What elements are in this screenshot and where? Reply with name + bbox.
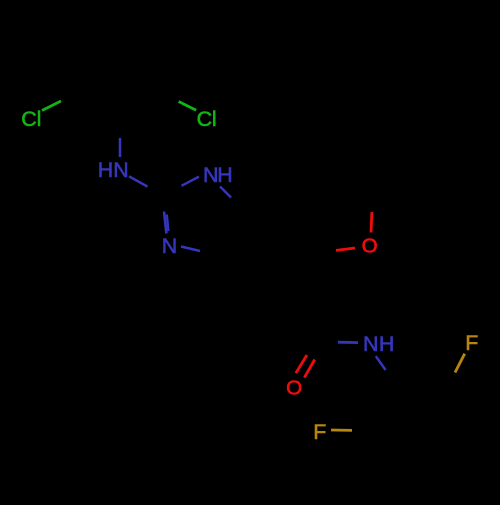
svg-text:C: C: [197, 107, 212, 131]
bond C2 - N1H imidazoline, blue half: [182, 177, 200, 186]
svg-text:N: N: [113, 158, 128, 182]
double bond C=O line 2, red half: [304, 360, 314, 378]
bond furan O - C7a vertical, red half: [370, 212, 374, 232]
svg-text:F: F: [313, 420, 326, 444]
svg-text:l: l: [212, 107, 217, 131]
svg-text:N: N: [203, 163, 218, 187]
svg-text:N: N: [363, 332, 378, 356]
svg-text:H: H: [217, 163, 232, 187]
bond N1H - C5 ring, blue half: [220, 187, 231, 198]
svg-text:O: O: [286, 376, 302, 399]
bond phenyl C1 - NH amine, blue half: [119, 138, 122, 157]
bond C2(ring)-Cl left, green half: [42, 101, 61, 111]
svg-text:H: H: [379, 332, 394, 356]
svg-text:F: F: [465, 331, 478, 355]
svg-text:C: C: [21, 107, 36, 131]
double bond C2=N3 inner line, blue half: [167, 215, 169, 232]
bond HN - C2 guanidine, blue half: [129, 176, 148, 186]
double bond C=O line 1, red half: [296, 355, 307, 373]
svg-text:l: l: [37, 107, 42, 131]
double bond C2=N3 main line, blue half: [164, 212, 166, 234]
svg-text:N: N: [162, 234, 177, 258]
bond furan O - C2furan left, red half: [336, 248, 355, 250]
bond C6(ring)-Cl right, green half: [179, 102, 197, 111]
bond NH - aryl C1, blue half: [376, 356, 386, 370]
svg-text:O: O: [362, 235, 378, 258]
bond aryl C - F bottom, gold half: [331, 429, 352, 432]
bond aryl C - F top, gold half: [455, 354, 465, 373]
svg-text:H: H: [98, 158, 113, 182]
bond N3 - C4 ring, blue half: [181, 247, 200, 252]
bond amide C - N, blue half: [338, 341, 358, 344]
